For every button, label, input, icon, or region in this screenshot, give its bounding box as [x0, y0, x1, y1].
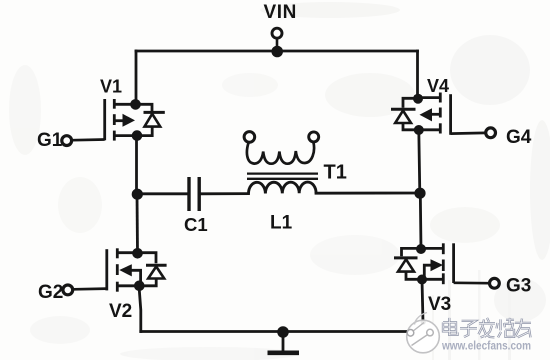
G3 terminal circle: [490, 278, 500, 288]
G1 wire: [72, 138, 105, 141]
terminal G4: [451, 127, 532, 148]
L1 winding: [248, 182, 316, 194]
svg-text:VIN: VIN: [264, 2, 297, 23]
D4 cathode bar: [391, 108, 416, 111]
ground: [268, 326, 300, 353]
svg-text:www.elecfans.com: www.elecfans.com: [441, 338, 531, 352]
V3 channel dash drain: [442, 243, 445, 254]
V4 body arrow shaft: [431, 113, 440, 116]
wire left column upper segment: [135, 51, 138, 104]
wire right column V4-source to node B: [419, 130, 420, 193]
diode body of V2: [138, 253, 167, 286]
V2 channel dash drain: [116, 248, 119, 258]
V1 channel dash source: [113, 131, 116, 141]
svg-text:V2: V2: [109, 301, 132, 322]
svg-text:C1: C1: [184, 214, 208, 235]
V4 channel dash source: [439, 123, 442, 133]
V2 channel dash source: [116, 282, 119, 292]
ground junction dot: [277, 326, 289, 338]
G2 wire: [74, 287, 107, 290]
svg-text:T1: T1: [324, 162, 347, 184]
node V3 wire end blob: [421, 319, 426, 324]
wire C1 to L1: [201, 192, 249, 195]
watermark text dianzifashaoyou: [443, 318, 531, 338]
watermark logo elecfans: [407, 313, 440, 353]
glyph you: [515, 318, 531, 337]
V1 drain stub: [114, 103, 135, 106]
node V4 source dot: [414, 125, 424, 135]
G3 wire: [454, 281, 489, 284]
svg-text:V1: V1: [100, 77, 122, 97]
V3 channel dash body: [442, 260, 445, 272]
G4 terminal circle: [486, 128, 496, 138]
node B junction right: [414, 188, 425, 199]
V2 channel dash body: [116, 264, 119, 275]
D1 wire from drain: [136, 104, 153, 111]
V3 gate bar: [452, 243, 455, 283]
V4 source stub: [419, 128, 441, 131]
svg-text:V3: V3: [428, 294, 451, 315]
V2 drain stub: [117, 251, 137, 254]
glyph dian: [443, 318, 458, 335]
wire bottom rail: [141, 330, 409, 333]
V4 channel dash body: [439, 108, 442, 118]
node V3 drain dot: [416, 244, 426, 254]
D3 wire to source: [406, 272, 422, 280]
V3 source stub: [422, 278, 443, 281]
D3 cathode bar: [394, 256, 418, 259]
VIN terminal circle: [272, 28, 282, 38]
D2 wire to source: [139, 279, 156, 286]
D1 triangle: [145, 114, 161, 127]
wire V3 source down toward bottom rail: [422, 280, 423, 323]
V2 body arrow shaft: [132, 270, 141, 283]
wire middle from node A to C1: [137, 192, 188, 195]
VIN terminal stem: [276, 39, 279, 47]
G4 wire: [451, 132, 486, 135]
V3 body arrow head: [431, 259, 444, 271]
G1 terminal circle: [62, 136, 72, 146]
V1 body arrow head: [123, 114, 136, 127]
node V4 drain dot: [413, 94, 423, 104]
transistor V4: [418, 76, 451, 135]
terminal G1: [37, 130, 105, 151]
V4 body arrow head: [420, 108, 433, 121]
D1 wire to source: [137, 127, 152, 136]
D4 wire to source: [403, 123, 419, 130]
V1 source stub: [114, 134, 136, 137]
C1 left plate: [187, 177, 190, 211]
node A junction left: [132, 189, 143, 200]
D4 wire from drain: [403, 98, 418, 108]
wire left column node A to V2 drain: [136, 194, 139, 253]
wire right column node B to V3 drain: [419, 193, 423, 249]
ground stem: [282, 336, 285, 351]
C1 right plate: [197, 177, 200, 211]
V3 body arrow shaft: [424, 265, 431, 277]
node V1 drain dot: [130, 99, 141, 110]
diode body of V1: [136, 104, 165, 135]
T1 core line lower: [247, 178, 318, 180]
D4 triangle: [395, 111, 411, 123]
D2 cathode bar: [146, 264, 167, 267]
V4 channel dash drain: [439, 93, 442, 103]
diode body of V4: [391, 98, 419, 130]
V1 body arrow shaft: [115, 119, 124, 122]
node VIN tap: [264, 2, 297, 57]
svg-text:G3: G3: [506, 276, 531, 297]
glyph zi: [460, 321, 477, 337]
glyph fa: [479, 318, 496, 338]
node V3 source dot: [417, 275, 427, 285]
D2 triangle: [148, 267, 164, 279]
wire right column upper segment: [416, 51, 419, 99]
V1 gate bar: [103, 99, 106, 140]
V4 drain stub: [418, 96, 440, 99]
D3 wire from drain: [402, 248, 422, 256]
wire L1 to node B: [316, 192, 420, 195]
terminal G3: [454, 276, 532, 297]
wire V2 source down to bottom rail: [139, 286, 141, 332]
D2 wire from drain: [138, 253, 157, 264]
svg-text:G4: G4: [506, 127, 532, 148]
V2 source stub: [117, 284, 139, 287]
svg-text:G1: G1: [37, 130, 63, 151]
transformer T1: [244, 132, 347, 184]
V3 drain stub: [421, 247, 443, 250]
V1 channel dash body: [113, 114, 116, 125]
node V2 source dot: [134, 281, 145, 292]
glyph shao: [497, 318, 515, 338]
V2 body arrow head: [119, 264, 132, 276]
svg-text:L1: L1: [270, 213, 293, 234]
V2 gate bar: [105, 249, 108, 290]
terminal G2: [38, 282, 107, 303]
svg-text:V4: V4: [427, 76, 449, 96]
glyph highlights pass: [443, 318, 458, 335]
node V1 source dot: [132, 130, 143, 141]
diode body of V3: [394, 248, 422, 279]
D1 cathode bar: [144, 111, 165, 114]
T1 secondary winding: [247, 143, 314, 164]
wire left column V1-source to node A: [135, 136, 138, 195]
transistor V1: [100, 77, 137, 141]
svg-text:G2: G2: [38, 282, 63, 303]
V3 channel dash source: [442, 273, 445, 284]
VIN junction dot: [271, 46, 283, 58]
D3 triangle: [398, 259, 414, 271]
T1 left terminal circle: [244, 132, 255, 143]
node V2 drain dot: [132, 248, 143, 259]
transistor V2: [107, 248, 141, 322]
ground bar: [268, 350, 300, 355]
T1 right terminal circle: [309, 132, 319, 142]
transistor V3: [421, 243, 454, 315]
V1 channel dash drain: [113, 99, 116, 109]
V4 gate bar: [449, 94, 452, 135]
capacitor C1: [184, 177, 208, 235]
T1 core line upper: [247, 172, 318, 174]
wire top rail: [136, 50, 418, 53]
inductor L1: [248, 182, 316, 233]
G2 terminal circle: [63, 285, 73, 295]
